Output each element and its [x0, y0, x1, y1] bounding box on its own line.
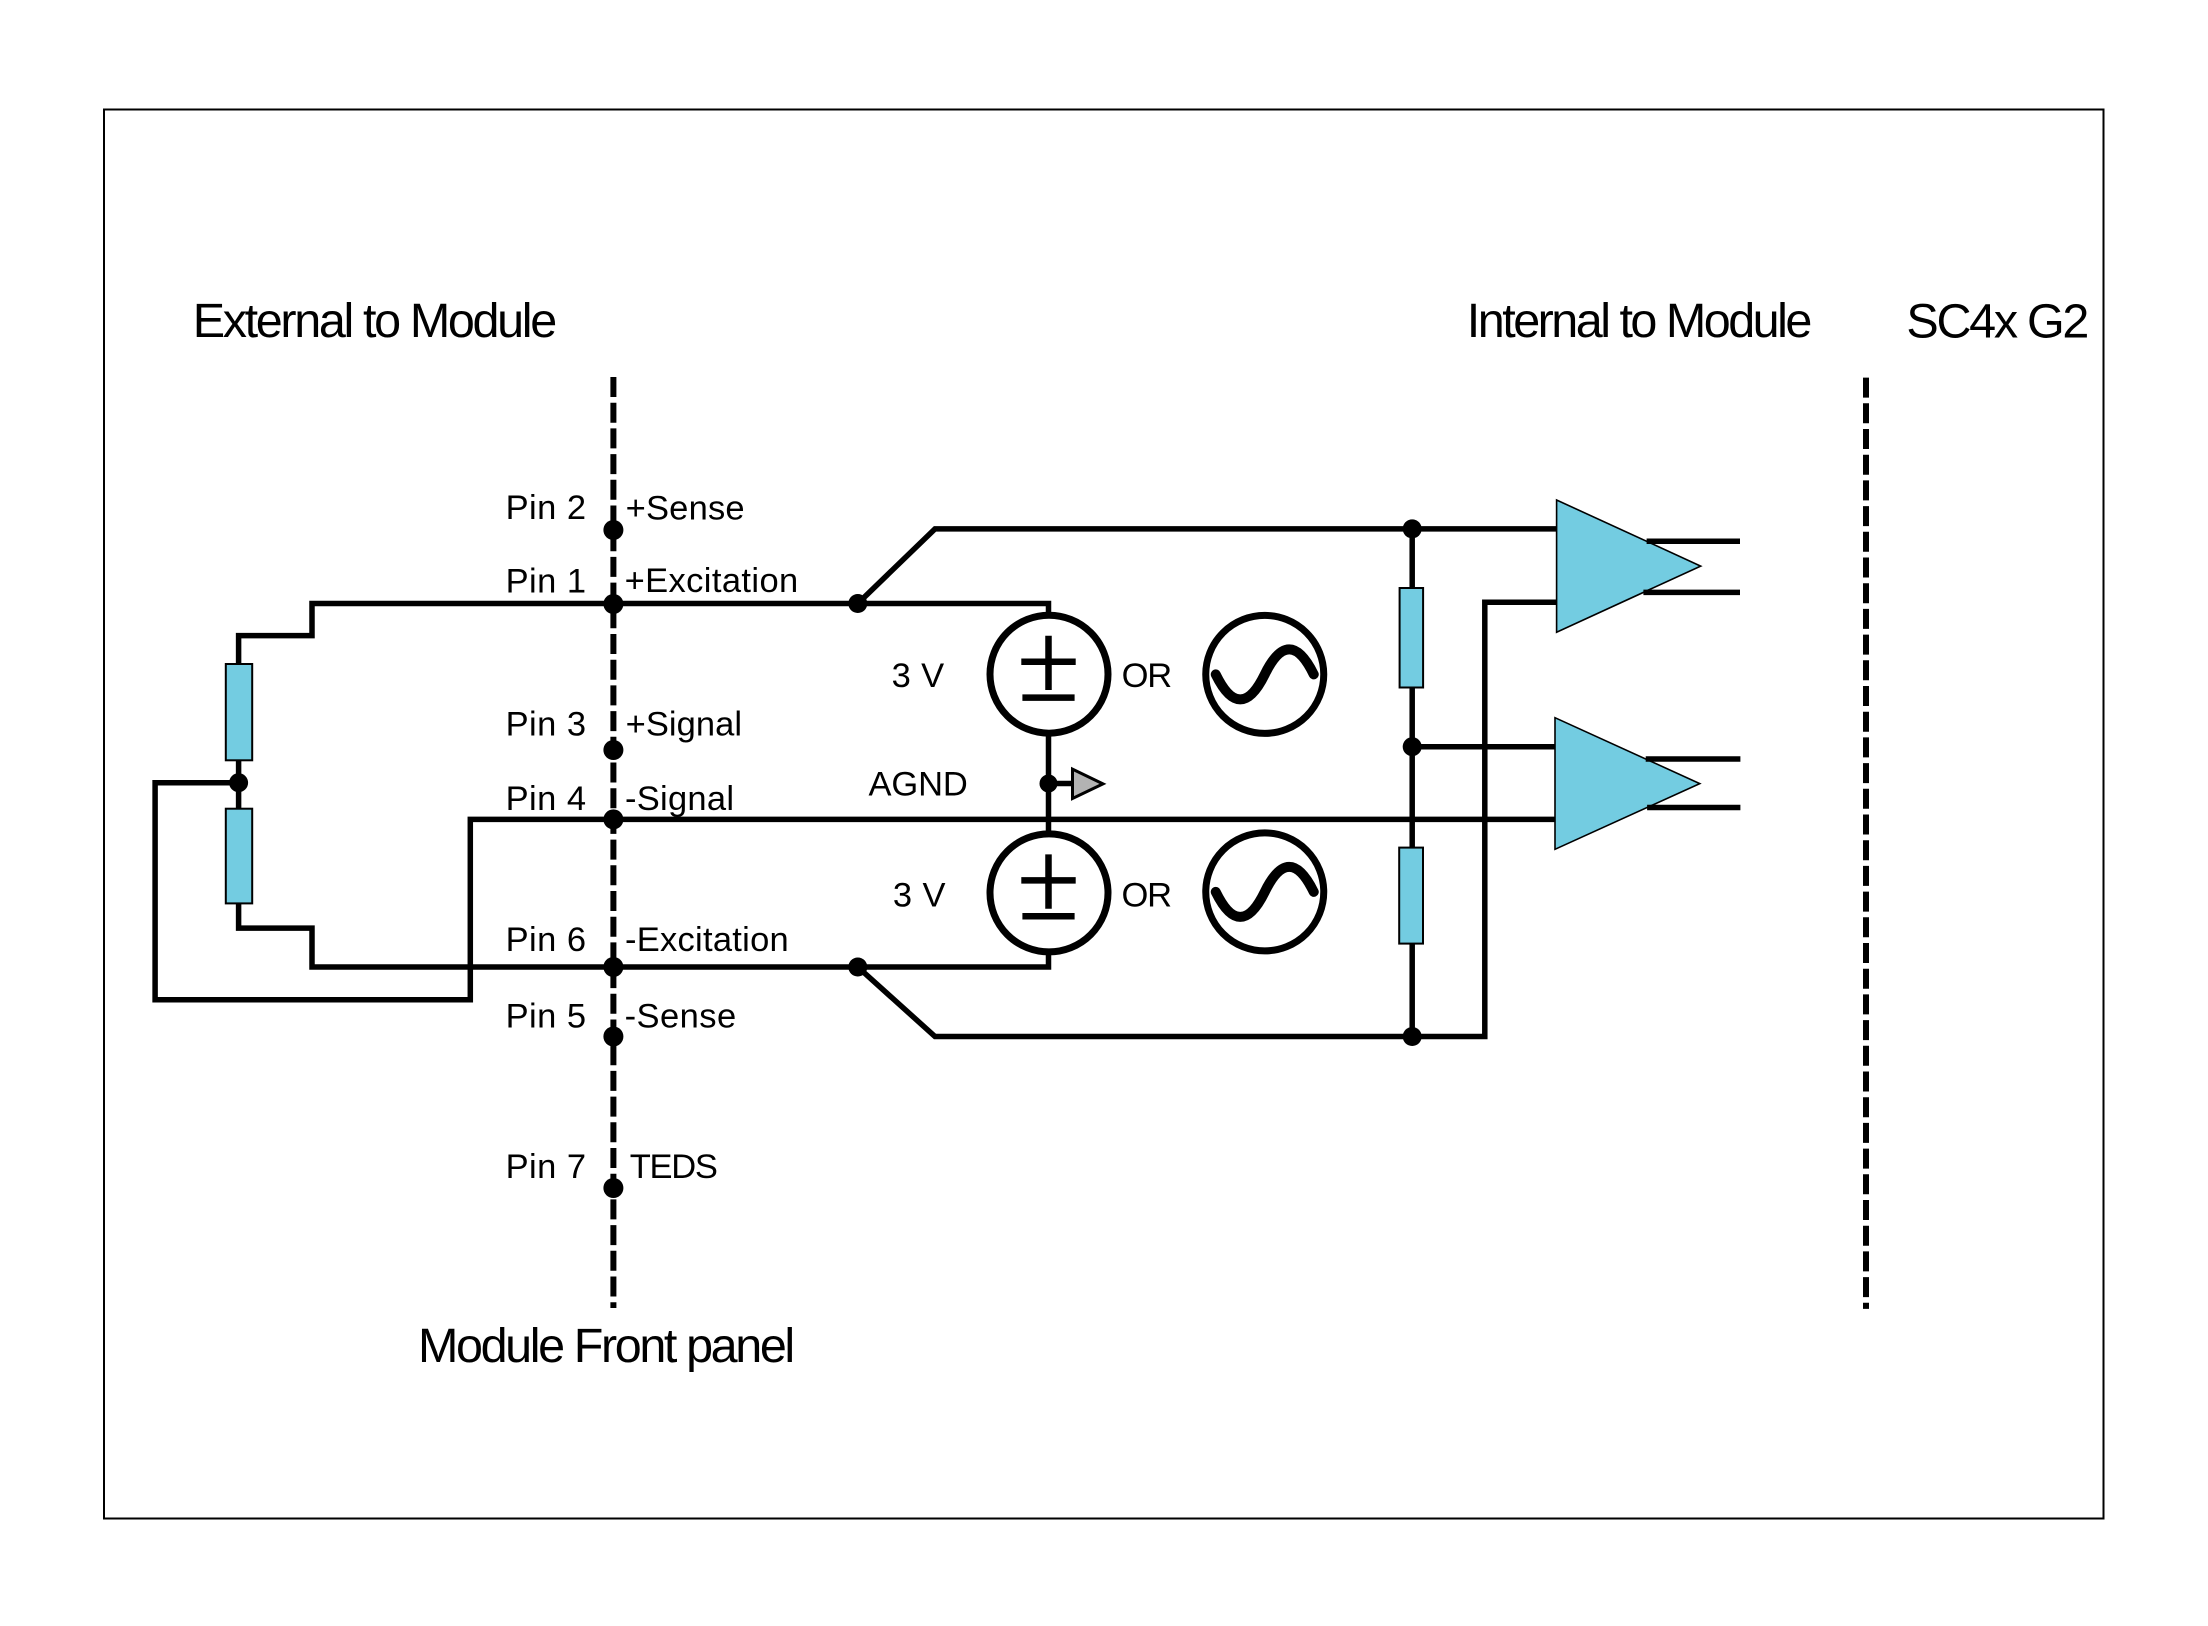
svg-text:Pin 5: Pin 5	[506, 998, 586, 1036]
svg-text:Pin 2: Pin 2	[506, 489, 586, 527]
svg-text:-Excitation: -Excitation	[625, 921, 789, 959]
svg-text:+Excitation: +Excitation	[625, 562, 799, 600]
svg-text:SC4x G2: SC4x G2	[1906, 295, 2089, 349]
svg-text:+Signal: +Signal	[626, 706, 743, 744]
svg-text:Pin 4: Pin 4	[506, 780, 586, 818]
svg-text:3 V: 3 V	[892, 657, 945, 695]
svg-text:TEDS: TEDS	[630, 1148, 718, 1186]
svg-text:+Sense: +Sense	[626, 490, 745, 528]
svg-text:OR: OR	[1122, 877, 1173, 915]
svg-text:Module Front panel: Module Front panel	[418, 1319, 795, 1373]
svg-text:External to Module: External to Module	[193, 294, 557, 348]
svg-text:Pin 3: Pin 3	[506, 706, 586, 744]
svg-text:Pin 7: Pin 7	[506, 1148, 586, 1186]
svg-text:OR: OR	[1122, 657, 1173, 695]
svg-text:-Sense: -Sense	[625, 998, 737, 1036]
svg-text:Pin 1: Pin 1	[506, 562, 586, 600]
svg-text:Pin 6: Pin 6	[506, 921, 586, 959]
svg-text:AGND: AGND	[869, 766, 968, 804]
svg-text:3 V: 3 V	[893, 877, 946, 915]
svg-text:-Signal: -Signal	[625, 780, 734, 818]
svg-text:Internal to Module: Internal to Module	[1467, 294, 1813, 348]
